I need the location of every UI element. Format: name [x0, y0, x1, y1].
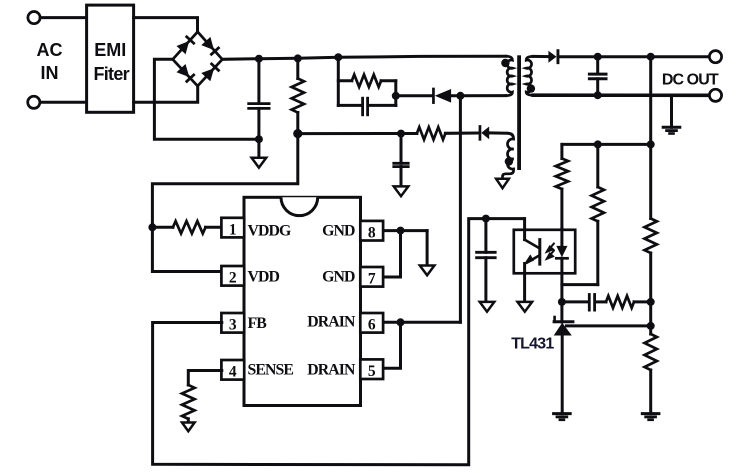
node GND net: [397, 227, 405, 235]
pin 1 box: [221, 218, 244, 238]
wire DC+ line: [560, 55, 710, 58]
bridge diode D2 (top-right arm): [201, 37, 214, 50]
capacitor C1 bulk: [257, 59, 260, 101]
transformer core: [517, 55, 521, 170]
ground below R5: [182, 423, 195, 432]
wire GND stub: [426, 231, 429, 266]
wire EMI bottom output to bridge: [134, 86, 198, 102]
wire EMI top output to bridge: [134, 18, 198, 32]
wire R5 to ground: [187, 419, 190, 423]
wire pin4 sense: [188, 371, 222, 386]
node DC+ C5: [594, 53, 602, 61]
svg-text:IN: IN: [41, 63, 59, 83]
capacitor C6 comp: [562, 300, 588, 303]
capacitor C5 output: [596, 57, 599, 73]
ground below opto emitter: [518, 302, 533, 312]
wire R8 to comp node: [649, 253, 652, 302]
secondary polarity dot: [527, 84, 535, 92]
node bus-R1: [294, 54, 302, 62]
svg-text:DRAIN: DRAIN: [307, 313, 356, 330]
node C1 bottom: [255, 135, 263, 143]
pin 4 box: [221, 360, 244, 380]
ground below C1: [252, 158, 267, 168]
ground chip GND: [420, 266, 435, 276]
wire snubber to clamp diode: [396, 94, 431, 97]
svg-text:TL431: TL431: [511, 336, 554, 353]
wire divider riser: [649, 57, 652, 219]
wire snubber right bracket: [394, 81, 397, 106]
wire C1 to ground: [257, 139, 260, 158]
node VDD-R4 junction: [148, 223, 156, 231]
bridge diode D4 (bottom-right arm): [201, 68, 214, 81]
node bus-C1: [255, 55, 263, 63]
svg-text:DRAIN: DRAIN: [307, 362, 356, 379]
svg-text:5: 5: [368, 363, 376, 380]
wire clamp diode to primary: [451, 94, 506, 97]
wire ref node to R10: [649, 326, 652, 334]
svg-text:2: 2: [229, 270, 237, 287]
bridge diode D1 (left-top arm): [177, 41, 190, 54]
wire TL431 ref: [567, 324, 651, 327]
svg-text:DC OUT: DC OUT: [662, 72, 719, 89]
pin 2 box: [221, 266, 244, 286]
node DC- C5: [594, 91, 602, 99]
opto LED: [560, 229, 563, 246]
node DC+ divider: [647, 53, 655, 61]
svg-text:7: 7: [368, 271, 376, 288]
wire R3 to aux diode: [445, 132, 477, 135]
svg-text:GND: GND: [322, 269, 355, 286]
wire R7 bottom to LED cathode: [562, 283, 598, 286]
wire pin7 riser: [384, 231, 401, 277]
optocoupler U3 box: [514, 230, 575, 273]
wire aux diode to winding: [489, 131, 508, 134]
svg-text:VDD: VDD: [248, 269, 280, 286]
wire DC- ground stub: [670, 95, 673, 127]
wire VDD down to chip: [152, 134, 297, 272]
wire AC top to EMI filter: [40, 16, 86, 19]
capacitor C4 FB filter: [484, 219, 487, 253]
wire pin5 riser: [384, 322, 401, 368]
svg-text:SENSE: SENSE: [248, 362, 294, 379]
wire comp to ref node: [649, 302, 652, 326]
pin 5 box: [360, 359, 383, 379]
EMI filter block: [87, 5, 134, 112]
ground below C4: [480, 302, 495, 312]
wire bias rail: [562, 143, 651, 146]
aux polarity dot: [505, 157, 513, 165]
diode D6 aux: [481, 127, 489, 140]
wire main HV bus: [222, 56, 506, 59]
resistor R5 sense: [182, 385, 195, 419]
capacitor C3 VDD: [400, 134, 403, 164]
terminal AC input top: [28, 12, 40, 24]
wire drain riser: [459, 96, 462, 322]
resistor R9 comp: [596, 300, 606, 303]
diode D7 output: [548, 51, 556, 63]
resistor R1 startup: [296, 58, 299, 78]
svg-text:EMI: EMI: [94, 40, 126, 60]
wire bridge minus to bottom bus: [154, 59, 259, 139]
svg-text:8: 8: [368, 225, 376, 242]
svg-text:4: 4: [229, 364, 237, 381]
transformer secondary winding: [526, 56, 533, 95]
pin 7 box: [360, 267, 383, 287]
svg-text:GND: GND: [322, 223, 355, 240]
wire secondary to output diode: [533, 55, 548, 58]
svg-text:1: 1: [229, 222, 237, 239]
pin 6 box: [360, 313, 383, 333]
resistor R7 LED parallel: [596, 144, 599, 187]
wire pin8 GND net: [384, 229, 427, 232]
transformer aux winding: [503, 133, 514, 179]
bridge rectifier frame: [173, 32, 223, 86]
node ref divider: [647, 322, 655, 330]
node clamp-drain junction: [456, 92, 464, 100]
opto light arrows: [547, 243, 555, 259]
pin 8 box: [360, 221, 383, 241]
svg-text:6: 6: [368, 317, 376, 334]
wire VDD rail: [298, 132, 417, 135]
svg-text:VDDG: VDDG: [248, 223, 292, 240]
node snubber tap: [392, 92, 400, 100]
capacitor C2 snubber: [338, 104, 361, 107]
svg-text:AC: AC: [37, 40, 63, 60]
wire R10 to ground: [649, 370, 652, 414]
resistor R4 pin1 series: [152, 226, 173, 229]
ground below aux winding: [496, 179, 509, 188]
node drain net: [397, 318, 405, 326]
node divider bias: [647, 140, 655, 148]
resistor R10 divider lower: [645, 334, 657, 370]
wire DC- line: [533, 93, 709, 97]
node VDD-C3: [397, 130, 405, 138]
svg-text:Fiter: Fiter: [93, 64, 129, 84]
resistor R6 LED series: [560, 144, 563, 158]
pin 3 box: [221, 313, 244, 333]
wire pin6 drain: [384, 321, 460, 324]
terminal DC out plus: [709, 51, 721, 63]
opto transistor: [523, 219, 526, 240]
terminal AC input bottom: [28, 96, 40, 108]
diode D5 clamp: [435, 89, 451, 103]
ground below C3: [394, 186, 409, 196]
wire AC bottom to EMI filter: [40, 101, 87, 104]
resistor R2 snubber: [338, 79, 352, 82]
svg-text:3: 3: [229, 317, 237, 334]
resistor R3 VDD rail: [417, 127, 446, 139]
terminal DC out minus: [709, 89, 721, 101]
node R1 bottom VDD rail: [293, 129, 302, 138]
ground below R10: [642, 412, 659, 415]
resistor R8 divider upper: [645, 219, 657, 254]
svg-text:FB: FB: [248, 315, 268, 332]
node bus-snubber: [334, 53, 342, 61]
bridge diode D3 (left-bottom arm): [177, 64, 190, 77]
ground below TL431: [554, 412, 571, 415]
primary polarity dot: [501, 59, 509, 67]
wire FB loop: [153, 219, 525, 465]
ground DC- earth: [663, 126, 680, 129]
node bias R7: [594, 140, 602, 148]
node cathode comp: [558, 298, 566, 306]
TL431 shunt regulator U4: [560, 302, 563, 322]
wire snubber left bracket: [337, 57, 340, 105]
node comp divider: [647, 298, 655, 306]
controller IC U1 body: [244, 197, 361, 405]
node FB-C4: [482, 215, 490, 223]
transformer primary winding: [506, 56, 513, 95]
